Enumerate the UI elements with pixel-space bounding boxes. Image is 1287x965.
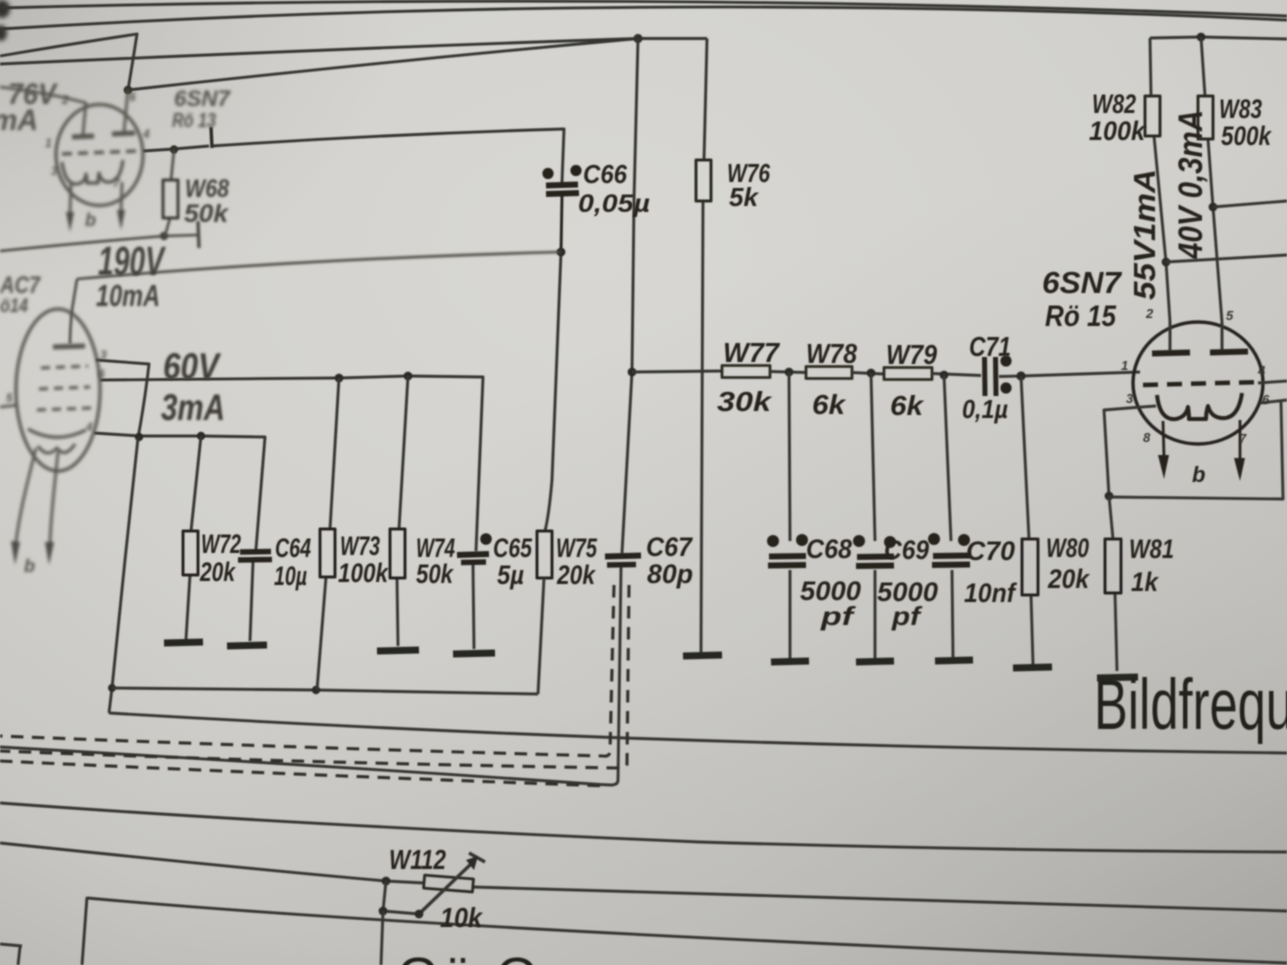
svg-text:W78: W78 [806, 338, 857, 369]
svg-text:Rö 15: Rö 15 [1045, 300, 1117, 333]
label W72 20k [199, 529, 241, 587]
svg-text:7: 7 [1239, 431, 1247, 446]
stub tick at 190V rail [198, 221, 199, 248]
wire W78-W79 [852, 373, 884, 375]
svg-text:W112: W112 [389, 844, 446, 875]
svg-text:W77: W77 [723, 337, 780, 368]
label W81 1k [1129, 534, 1174, 597]
wire bottom-left stub [0, 944, 22, 965]
svg-text:6k: 6k [890, 390, 924, 421]
svg-text:W79: W79 [886, 339, 937, 370]
wire W77-W78 [770, 372, 806, 373]
svg-text:C65: C65 [493, 533, 533, 563]
Ro13 anode leads [0, 87, 128, 136]
svg-text:W80: W80 [1046, 533, 1089, 563]
svg-text:20k: 20k [1047, 564, 1091, 594]
wire top rail A1 [0, 1, 1287, 16]
label W112 10k [389, 844, 483, 933]
label W73 100k [338, 531, 390, 588]
ground for W74 [377, 650, 419, 651]
svg-text:55V1mA: 55V1mA [1127, 169, 1162, 300]
resistor W83 column [1201, 37, 1222, 322]
svg-text:b: b [85, 210, 96, 230]
svg-text:60V: 60V [163, 346, 222, 387]
svg-text:b: b [24, 556, 35, 576]
svg-text:3: 3 [51, 164, 58, 178]
node W83 bar dot [1197, 33, 1206, 42]
node bus-right junction dot [628, 368, 637, 377]
capacitor C71 [985, 355, 1012, 396]
wire 190V rail [0, 235, 198, 251]
svg-text:C70: C70 [966, 536, 1015, 566]
label C64 10u [274, 533, 311, 591]
svg-text:Gü O: Gü O [397, 947, 542, 965]
wire AC7 cathode line [94, 433, 265, 549]
svg-text:1k: 1k [1131, 567, 1160, 597]
label C69 5000pf [877, 535, 938, 631]
svg-text:Bildfrequ: Bildfrequ [1094, 666, 1287, 745]
svg-text:C71: C71 [969, 331, 1011, 362]
label C68 5000pf [800, 534, 861, 631]
wire from W83 node to right edge [1213, 201, 1287, 207]
wire pin4 out [1258, 381, 1287, 383]
Ro13 right anode [112, 133, 135, 134]
svg-text:C68: C68 [806, 534, 852, 564]
svg-text:50k: 50k [416, 559, 455, 589]
label 6SN7 Ro15 [1042, 265, 1123, 333]
svg-text:80p: 80p [647, 559, 693, 589]
svg-text:30k: 30k [717, 386, 773, 417]
label W74 50k [416, 533, 455, 589]
svg-text:ö14: ö14 [0, 296, 28, 317]
Ro15 anode right [1210, 352, 1248, 353]
Ro15 cathode wire to W81 [1104, 406, 1156, 496]
Ro13 grid dashes [62, 151, 137, 154]
node bus dot W74 [404, 372, 413, 381]
node chain dot C68 [785, 368, 794, 377]
resistor W73 column [317, 378, 339, 690]
AC7 cathode arc [28, 429, 86, 437]
svg-text:W81: W81 [1129, 534, 1174, 564]
label W79 6k [886, 339, 937, 421]
resistor W77 [722, 366, 770, 378]
pin digits Ro15 [1121, 306, 1270, 446]
W112 wiper arm [419, 863, 472, 914]
svg-text:40V 0,3mA: 40V 0,3mA [1172, 110, 1210, 260]
wire AC7 pin3 stub down [96, 360, 149, 438]
wire grid line Ro13 to C66 [143, 129, 564, 182]
svg-text:b: b [1192, 462, 1205, 487]
svg-text:100k: 100k [338, 558, 390, 588]
stub tick near Ro13 [211, 127, 212, 148]
svg-text:3: 3 [100, 348, 107, 362]
wire W75 bottom to line A corner [538, 578, 544, 694]
svg-text:6: 6 [129, 90, 136, 104]
ground for W80 [1013, 667, 1052, 668]
W112 wiper wire [383, 881, 419, 914]
svg-text:500k: 500k [1221, 121, 1273, 151]
svg-text:8: 8 [1143, 430, 1151, 445]
wire from W82 node to right edge [1166, 255, 1287, 262]
resistor W76 [696, 160, 711, 201]
wire AC7 anode corner [70, 279, 77, 344]
wire L1 from Ro13 anode node to node D1 [128, 39, 638, 91]
node W68 top dot [170, 145, 178, 153]
svg-text:5µ: 5µ [497, 560, 524, 590]
resistor W78 [806, 367, 852, 379]
node pin3 joins dot [135, 433, 143, 441]
svg-text:4: 4 [85, 420, 93, 434]
AC7 grid pin wire left [0, 405, 18, 407]
ground for C69 [856, 661, 894, 662]
svg-text:10µ: 10µ [274, 561, 307, 591]
wire line D with W112 [0, 843, 1287, 911]
resistor W82 column [1150, 38, 1170, 322]
tube Ro15 envelope [1133, 322, 1263, 444]
resistor W80 column [1021, 376, 1033, 664]
node C66-190V junction dot [557, 248, 566, 257]
tube Ro13 envelope [56, 105, 143, 206]
wire C66 bottom to W75 [545, 252, 561, 531]
Ro13 heater [62, 160, 123, 184]
AC7 grid dash rows [41, 366, 88, 368]
node W82 wire dot [1162, 258, 1171, 267]
capacitor C64 column [250, 549, 256, 641]
svg-text:4: 4 [1257, 363, 1266, 378]
svg-text:6SN7: 6SN7 [174, 86, 232, 111]
label C71 0,1u [962, 331, 1011, 424]
svg-text:mA: mA [0, 104, 38, 137]
wire long vertical D1 to C67 column [622, 39, 638, 554]
shield dashed pair [0, 585, 629, 786]
svg-text:6k: 6k [812, 389, 846, 420]
svg-text:4: 4 [142, 127, 150, 141]
svg-text:Rö 13: Rö 13 [172, 110, 216, 132]
svg-text:5: 5 [1226, 308, 1234, 323]
svg-text:W72: W72 [201, 529, 241, 559]
wire top right bar [1150, 37, 1287, 39]
Ro15 heater [1157, 393, 1242, 419]
svg-text:6SN7: 6SN7 [1042, 265, 1123, 300]
node line A tee dot [108, 684, 116, 692]
capacitor C70 column [944, 375, 953, 657]
ground for W72 [164, 642, 203, 643]
svg-text:0,1µ: 0,1µ [962, 394, 1008, 424]
Ro13 heater leads and arrows [70, 182, 122, 213]
svg-text:10nf: 10nf [964, 578, 1018, 608]
label W76 [727, 158, 770, 212]
svg-text:AC7: AC7 [0, 272, 41, 299]
svg-text:W68: W68 [185, 175, 229, 203]
svg-text:3mA: 3mA [161, 387, 225, 428]
ground for W81 [1097, 677, 1138, 678]
ground for C70 [935, 660, 973, 661]
node W68 bottom dot [160, 232, 168, 240]
svg-text:pf: pf [891, 601, 923, 631]
wire 10mA anode rail [77, 252, 561, 279]
label W82 100k [1089, 89, 1147, 146]
node W80 top dot [1016, 371, 1025, 380]
svg-text:6: 6 [1262, 392, 1270, 407]
resistor W81 column [1109, 496, 1117, 671]
svg-text:20k: 20k [556, 560, 597, 590]
wire left long vertical to line B [109, 438, 138, 713]
capacitor C65 column [473, 565, 474, 649]
svg-text:5: 5 [6, 391, 13, 405]
ground for C64 [227, 645, 267, 646]
svg-text:C67: C67 [646, 532, 694, 562]
node chain dot C69 [867, 369, 876, 378]
ground for W76 [683, 655, 722, 656]
svg-text:1: 1 [1121, 358, 1128, 373]
Ro15 heater leads and arrows [1163, 420, 1240, 460]
svg-text:10mA: 10mA [96, 278, 160, 313]
pin digits AC7 [6, 348, 107, 434]
svg-text:W73: W73 [340, 531, 380, 561]
node chain dot C70 [940, 371, 949, 380]
label C65 5u [493, 533, 533, 590]
wire line C [0, 803, 1287, 852]
node W72 top dot [197, 432, 205, 440]
Ro15 anode leads up [1170, 322, 1222, 351]
capacitor C69 column [871, 373, 875, 658]
photo edge smudge top-left [0, 0, 10, 41]
svg-text:pf: pf [820, 601, 856, 631]
resistor W72 column [186, 436, 201, 639]
svg-text:0,05µ: 0,05µ [578, 190, 650, 218]
svg-text:W83: W83 [1219, 94, 1262, 124]
label W75 20k [556, 533, 598, 590]
Ro15 anode left [1152, 353, 1190, 354]
wire C67 solid shield lead [0, 567, 621, 785]
svg-text:C69: C69 [884, 535, 929, 565]
svg-text:1: 1 [45, 136, 52, 150]
label C67 80p [646, 532, 694, 589]
resistor W68 [165, 150, 174, 236]
potentiometer W112 [424, 875, 474, 892]
label C70 10nf [964, 536, 1018, 608]
node bus dot W73 [335, 374, 344, 383]
resistor W75 [537, 531, 552, 578]
svg-text:C66: C66 [583, 159, 627, 189]
node W83 wire dot [1209, 203, 1218, 212]
node line A W73 dot [312, 686, 320, 694]
svg-text:20k: 20k [199, 557, 236, 587]
capacitor C68 column [789, 372, 790, 658]
wire 60V chain to W77 [632, 371, 722, 372]
Ro15 grid dashes [1143, 382, 1262, 385]
svg-text:W82: W82 [1092, 89, 1136, 119]
wire W112 drop to bottom [381, 911, 383, 965]
tube AC7 envelope [16, 309, 100, 471]
label W78 6k [806, 338, 857, 420]
svg-text:2: 2 [61, 93, 69, 107]
AC7 heater leads and arrows [16, 448, 58, 542]
svg-text:6: 6 [98, 367, 105, 381]
label C66 [578, 159, 650, 218]
capacitor C66 [542, 165, 581, 252]
svg-text:10k: 10k [440, 902, 483, 933]
pin digits Ro13 [45, 90, 150, 190]
wire W79 to C71 [932, 374, 981, 376]
wire M from left edge to node D1 [0, 39, 707, 65]
svg-text:50k: 50k [184, 200, 229, 228]
svg-text:5k: 5k [729, 182, 760, 212]
ground for C68 [771, 661, 809, 662]
label W77 30k [717, 337, 780, 417]
node W112 left dot [382, 877, 391, 886]
resistor W79 [884, 368, 932, 380]
resistor W74 column [397, 376, 408, 646]
node T1 junction dot [124, 86, 133, 95]
svg-text:3: 3 [1126, 391, 1134, 406]
node D1 junction dot [633, 34, 642, 43]
svg-text:W75: W75 [556, 533, 598, 563]
wire corner arm to Ro13 anode [0, 34, 137, 90]
wire C71 to tube pin1 [999, 372, 1140, 377]
AC7 heater [38, 444, 75, 453]
wire line A [112, 688, 538, 694]
svg-text:2: 2 [1145, 306, 1154, 321]
Ro13 left anode [72, 136, 94, 137]
wire line B [109, 713, 1287, 753]
capacitor C67 [605, 556, 641, 566]
wire W76 column [701, 39, 707, 653]
wire cathode box to pin6 [1109, 400, 1287, 499]
svg-text:100k: 100k [1089, 116, 1147, 146]
node W112 wiper dots [415, 910, 424, 919]
wire top rail A2 [0, 7, 1287, 29]
wire 60V bus from AC7 [100, 376, 483, 551]
AC7 anode bar [53, 346, 85, 347]
label W83 500k [1219, 94, 1273, 151]
node cathode dot [1105, 492, 1114, 501]
svg-text:C64: C64 [275, 533, 311, 563]
ground for C65 [453, 653, 495, 654]
label W80 20k [1046, 533, 1091, 594]
wire line E [82, 897, 1287, 965]
